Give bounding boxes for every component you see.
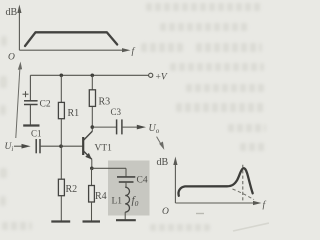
svg-text:C2: C2 (40, 100, 51, 110)
node: rail junction R3 (91, 74, 95, 78)
capacitor C1 (31, 129, 42, 154)
output response graph horizontal axis (f) (162, 200, 267, 218)
node: base junction (59, 144, 63, 148)
wire: base node down to R2 (60, 146, 62, 179)
output response curve with resonant peak (178, 168, 252, 196)
resistor R3 (89, 90, 110, 108)
svg-text:f: f (263, 200, 267, 211)
dashed vertical line at f0 peak (242, 165, 244, 203)
wire: L1 to ground (124, 212, 126, 219)
svg-text:R1: R1 (68, 108, 80, 119)
wire: R1 to base node (60, 119, 62, 147)
wire: rail down to R1 (60, 75, 62, 102)
svg-text:R3: R3 (99, 97, 111, 108)
wire: tank top down to C4 (125, 168, 127, 177)
annotation arrow from Uo down to output graph (157, 137, 165, 150)
svg-text:O: O (8, 53, 15, 63)
wire: emitter junction to tank (92, 167, 126, 169)
shaded highlight box around resonant tank (108, 161, 150, 216)
wire: C1 to base of VT1 (40, 145, 83, 147)
input Ui label and arrow (5, 142, 31, 153)
capacitor C3 (111, 107, 122, 134)
wire: emitter down to junction (91, 159, 93, 168)
svg-text:C1: C1 (31, 129, 42, 139)
wire: C4 to L1 (125, 182, 127, 187)
svg-text:L1: L1 (112, 197, 123, 207)
svg-text:R2: R2 (66, 184, 78, 195)
svg-text:f: f (132, 46, 136, 57)
resistor R2 (58, 179, 77, 196)
wire: rail down to R3 (91, 75, 93, 90)
ground (R2) (51, 220, 70, 222)
faint show-through text rows (decorative) (146, 3, 262, 11)
resistor R1 (58, 102, 79, 119)
svg-text:C3: C3 (111, 107, 122, 117)
output wire with arrow to Uo (122, 123, 160, 135)
wire: collector node to C3 (92, 126, 116, 128)
dashed rolloff curve (response without peak) (233, 189, 255, 200)
ground (R4) (83, 220, 101, 222)
output response graph vertical axis (dB) (157, 157, 178, 204)
node: emitter junction (90, 167, 94, 171)
ground (C2) (23, 124, 39, 126)
input response graph vertical axis (dB) (6, 5, 22, 51)
wire: rail left end down to C2 (29, 75, 31, 100)
capacitor C2 (polarized) (23, 91, 51, 109)
wire: collector up to R3 (91, 106, 93, 131)
wire: +V supply top rail (30, 74, 148, 76)
svg-text:Ui: Ui (5, 142, 14, 153)
faint scan streak bottom-right corner (decorative) (233, 223, 269, 231)
transistor VT1 (83, 131, 112, 159)
wire: R2 to ground (60, 196, 62, 221)
svg-text:dB: dB (6, 7, 18, 18)
svg-text:dB: dB (157, 157, 169, 168)
svg-text:C4: C4 (137, 176, 148, 186)
small tick under output axis (196, 213, 204, 215)
wire: C2 to ground (29, 105, 31, 125)
svg-text:O: O (162, 207, 169, 217)
input response graph horizontal axis (f) (8, 46, 136, 63)
inductor L1 (112, 187, 139, 212)
svg-text:R4: R4 (95, 191, 107, 202)
wire: emitter junction down to R4 (91, 168, 93, 185)
capacitor C4 (117, 176, 148, 186)
wire: R4 to ground (91, 202, 93, 221)
svg-text:Uo: Uo (149, 123, 160, 135)
ground (L1) (116, 219, 136, 221)
svg-text:+V: +V (156, 73, 168, 83)
+V terminal (149, 73, 168, 83)
input response flat curve (25, 32, 117, 46)
node: rail junction R1 (60, 74, 64, 78)
annotation arrow from Ui up to input graph origin (16, 62, 22, 139)
svg-text:VT1: VT1 (95, 144, 113, 154)
resistor R4 (89, 186, 107, 203)
node: collector / C3 junction (91, 125, 95, 129)
